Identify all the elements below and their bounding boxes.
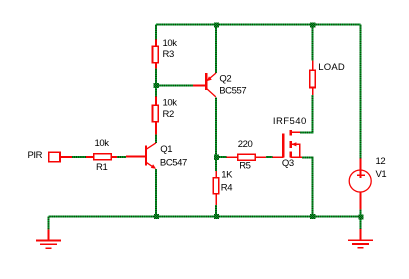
terminal PIR bbox=[28, 150, 73, 162]
wire Q3 drain to LOAD bbox=[300, 131, 314, 133]
resistor R5 bbox=[226, 139, 266, 172]
wire LOAD bottom riser bbox=[312, 95, 314, 132]
resistor R1 bbox=[86, 138, 117, 173]
wire R3 top bbox=[155, 25, 157, 40]
wire PIR to R1 bbox=[72, 156, 86, 158]
ground right bbox=[348, 229, 373, 248]
resistor R3 bbox=[153, 38, 178, 69]
node junction bottom rail / Q3 source bbox=[310, 214, 315, 219]
transistor Q1 BC547 (NPN) bbox=[126, 143, 187, 169]
svg-text:IRF540: IRF540 bbox=[273, 116, 307, 127]
wire top rail bbox=[156, 24, 361, 26]
transistor Q2 BC557 (PNP) bbox=[193, 73, 246, 97]
svg-text:220: 220 bbox=[238, 139, 253, 150]
wire R3 bottom bbox=[155, 69, 157, 86]
wire R1 to Q1 base bbox=[117, 156, 126, 158]
wire LOAD top bbox=[312, 25, 314, 61]
node junction R3 / R2 / Q2 base bbox=[154, 83, 159, 88]
wire Q2 collector to node bbox=[215, 97, 217, 157]
transistor Q3 IRF540 (NMOS) bbox=[273, 116, 307, 169]
node junction bottom rail / Q1 emitter bbox=[154, 214, 159, 219]
node junction top rail / Q2 emitter bbox=[214, 22, 219, 27]
svg-text:PIR: PIR bbox=[28, 150, 43, 161]
wire right ground drop bbox=[360, 217, 362, 230]
svg-text:R2: R2 bbox=[163, 109, 174, 120]
svg-text:R3: R3 bbox=[163, 49, 174, 60]
wire R4 bottom bbox=[215, 205, 217, 217]
svg-text:BC557: BC557 bbox=[219, 86, 246, 97]
wire bottom rail bbox=[49, 216, 361, 218]
wire R4 top bbox=[215, 157, 217, 171]
wire Q3 source drop bbox=[312, 157, 314, 216]
wire V1 bottom bbox=[360, 210, 362, 217]
svg-text:V1: V1 bbox=[376, 169, 387, 180]
svg-text:12: 12 bbox=[376, 156, 386, 167]
svg-text:R5: R5 bbox=[239, 161, 250, 172]
node junction bottom rail / V1 bbox=[358, 214, 363, 219]
node junction Q2 collector / R5 / R4 bbox=[214, 155, 219, 160]
svg-text:10k: 10k bbox=[163, 38, 178, 49]
svg-text:Q2: Q2 bbox=[219, 73, 231, 84]
svg-text:10k: 10k bbox=[95, 138, 110, 149]
svg-text:Q1: Q1 bbox=[160, 144, 172, 155]
wire Q2 base bbox=[156, 85, 193, 87]
wire node to R5 bbox=[216, 156, 226, 158]
node junction bottom rail / R4 bbox=[214, 214, 219, 219]
wire Q1 emitter to bottom rail bbox=[155, 169, 157, 217]
wire left ground drop bbox=[48, 217, 50, 230]
wire R2 top bbox=[155, 86, 157, 97]
wire R2 bottom bbox=[155, 135, 157, 143]
resistor R2 bbox=[153, 97, 178, 135]
svg-text:1K: 1K bbox=[221, 170, 233, 181]
wire R5 to Q3 gate bbox=[266, 156, 273, 158]
resistor LOAD bbox=[310, 60, 345, 95]
svg-text:R1: R1 bbox=[96, 162, 107, 173]
node junction top rail / LOAD bbox=[310, 22, 315, 27]
svg-text:Q3: Q3 bbox=[282, 158, 294, 169]
svg-text:10k: 10k bbox=[163, 98, 178, 109]
voltage source V1 bbox=[349, 156, 386, 209]
resistor R4 bbox=[213, 170, 233, 205]
wire Q3 source to bottom rail bbox=[302, 156, 314, 158]
svg-text:LOAD: LOAD bbox=[318, 62, 345, 73]
svg-text:R4: R4 bbox=[221, 183, 232, 194]
ground left bbox=[36, 230, 61, 249]
wire Q2 emitter to rail bbox=[215, 25, 217, 73]
wire V1 top bbox=[360, 25, 362, 159]
svg-text:BC547: BC547 bbox=[160, 158, 187, 169]
